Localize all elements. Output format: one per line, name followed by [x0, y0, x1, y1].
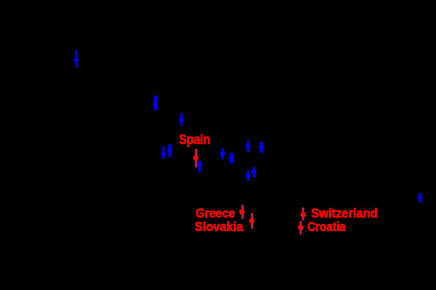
data point B6	[198, 161, 203, 173]
data point Slovakia (red)	[249, 213, 254, 229]
data point B1	[74, 50, 79, 67]
data point B9	[246, 141, 251, 153]
data point Greece (red)	[239, 205, 244, 219]
data point B3	[179, 113, 184, 126]
data point Switzerland (red)	[300, 208, 305, 221]
data point Spain (red)	[193, 149, 198, 167]
data point B7	[220, 148, 225, 159]
svg-text:Croatia: Croatia	[307, 220, 346, 234]
data point B5	[167, 144, 172, 157]
data point B2	[153, 96, 157, 111]
svg-text:Greece: Greece	[196, 206, 235, 220]
data point Croatia (red)	[298, 221, 303, 235]
svg-text:Switzerland: Switzerland	[311, 207, 378, 221]
data point B8	[229, 153, 234, 163]
svg-text:Spain: Spain	[179, 132, 210, 147]
data point B4	[161, 147, 166, 159]
svg-text:Slovakia: Slovakia	[195, 220, 244, 234]
data point B10	[259, 142, 264, 153]
data point B11	[246, 170, 251, 181]
data point B12	[251, 167, 256, 178]
data point B13	[418, 193, 423, 203]
